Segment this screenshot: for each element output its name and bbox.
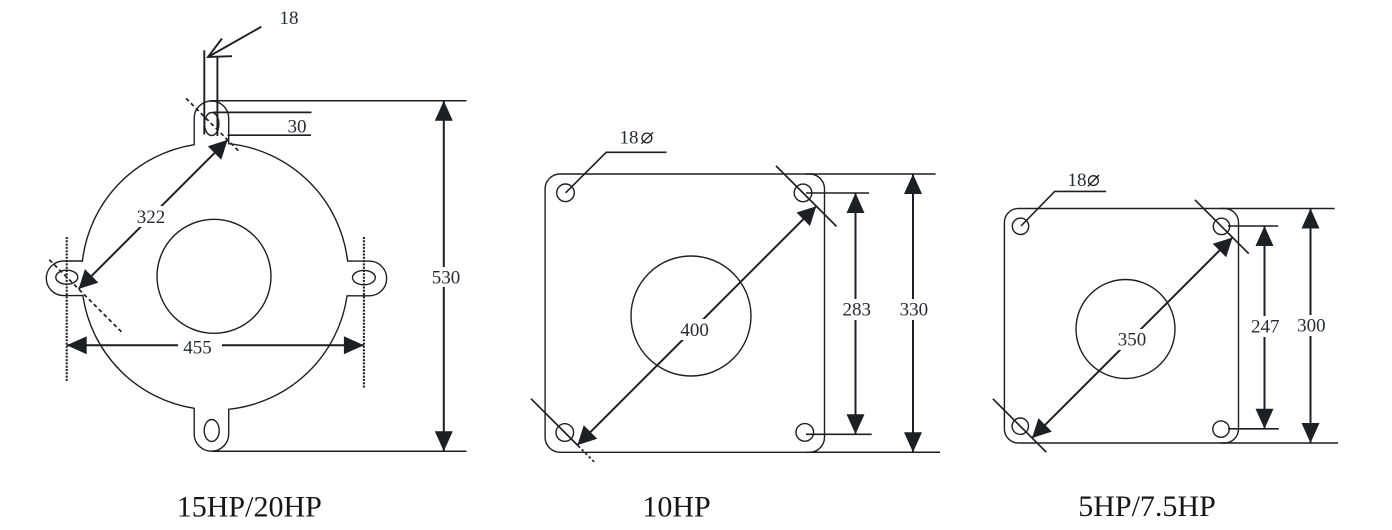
extension line plate-top for dim 330 — [806, 173, 936, 175]
dimension line 283 — [855, 193, 857, 434]
extension line tab-bottom for dim 530 — [211, 450, 467, 452]
extension line TR hole for dim 247 — [1228, 225, 1278, 227]
dimension line 300 — [1310, 209, 1312, 444]
right tab slot hole — [353, 270, 376, 284]
hole BL — [556, 424, 574, 442]
extension line hole-bottom for dim 30 — [228, 134, 312, 136]
svg-text:18: 18 — [1068, 170, 1087, 191]
dimension line 530 — [443, 101, 445, 451]
text 247 — [1249, 316, 1281, 337]
svg-text:18: 18 — [620, 128, 639, 149]
leader shaft for dim 18 — [208, 27, 261, 57]
hole BR — [1213, 421, 1229, 437]
extension line x217 for dim 18 — [216, 56, 218, 136]
svg-text:330: 330 — [900, 300, 929, 321]
arrowhead 330 down — [904, 432, 922, 452]
arrowhead 350 upper — [1213, 237, 1233, 257]
extension line tab-top for dim 530 — [210, 100, 467, 102]
leader open arrowhead for dim 18 — [208, 39, 232, 58]
arrowhead 283 down — [847, 414, 865, 434]
arrowhead 300 down — [1302, 423, 1320, 443]
arrowhead 330 up — [904, 174, 922, 194]
flange outline with four tabs — [46, 101, 386, 451]
dimension line 400 diagonal — [577, 206, 816, 445]
hole BL — [1012, 418, 1028, 434]
svg-text:350: 350 — [1118, 329, 1147, 350]
slash through BL hole — [531, 399, 578, 446]
text 322 — [134, 206, 168, 227]
svg-text:455: 455 — [183, 338, 212, 359]
arrowhead 247 up — [1256, 226, 1274, 246]
arrowhead 322 lower — [79, 269, 99, 289]
extension line hole-top for dim 30 — [213, 111, 312, 113]
text 400 — [678, 319, 712, 340]
slash through TR hole — [1195, 200, 1249, 254]
plate outline — [1004, 209, 1238, 444]
extension line plate-bottom for dim 300 — [1221, 442, 1338, 444]
dotted extension line left for dim 455 — [66, 237, 68, 382]
text 455 — [178, 336, 222, 356]
dimension line 330 — [912, 174, 914, 452]
svg-text:10HP: 10HP — [642, 491, 710, 524]
arrowhead 455 left — [67, 336, 87, 354]
text 350 — [1115, 329, 1149, 350]
leader for 18 dia — [1021, 191, 1106, 226]
svg-text:300: 300 — [1297, 316, 1326, 337]
svg-text:15HP/20HP: 15HP/20HP — [177, 491, 322, 524]
leader for 18 dia — [566, 152, 667, 193]
bottom tab slot hole — [204, 420, 219, 442]
left tab slot hole — [56, 270, 78, 284]
hole TL — [1012, 218, 1028, 234]
hole BR — [796, 424, 814, 442]
hole TL — [557, 184, 575, 202]
svg-text:30: 30 — [288, 116, 307, 137]
arrowhead 322 upper — [208, 140, 228, 160]
top tab slot hole — [205, 113, 219, 136]
arrowhead 283 up — [847, 193, 865, 213]
slash through left hole for dim 322 — [49, 260, 121, 332]
extension line BR hole for dim 247 — [1228, 428, 1279, 430]
centre circle — [631, 256, 751, 376]
extension line TR hole for dim 283 — [806, 192, 869, 194]
arrowhead 455 right — [344, 336, 364, 354]
extension line plate-bottom for dim 330 — [806, 451, 940, 453]
extension line plate-top for dim 300 — [1221, 208, 1335, 210]
text 300 — [1296, 315, 1328, 336]
inner bore circle — [157, 219, 271, 333]
slash through top hole for dim 322 — [186, 98, 239, 151]
dimension line 455 — [67, 344, 364, 346]
svg-text:5HP/7.5HP: 5HP/7.5HP — [1078, 490, 1216, 523]
plate outline — [545, 174, 824, 452]
extension line x204 for dim 18 — [203, 50, 205, 134]
text 330 — [897, 299, 931, 320]
arrowhead 530 down — [435, 431, 453, 451]
arrowhead 300 up — [1302, 209, 1320, 229]
slash through TR hole — [776, 166, 837, 227]
slash through BL hole — [993, 399, 1046, 452]
centre circle — [1076, 280, 1175, 379]
svg-text:322: 322 — [137, 207, 166, 228]
arrowhead 530 up — [435, 101, 453, 121]
dashed slash tail BL — [578, 446, 595, 463]
hole TR — [1213, 218, 1229, 234]
dimension line 247 — [1264, 226, 1266, 429]
svg-text:247: 247 — [1251, 317, 1280, 338]
text 530 — [430, 267, 462, 287]
text 283 — [840, 299, 874, 320]
svg-text:283: 283 — [843, 300, 872, 321]
extension line BR hole for dim 283 — [806, 433, 872, 435]
svg-text:530: 530 — [432, 267, 461, 288]
hole TR — [794, 184, 812, 202]
arrowhead 247 down — [1256, 409, 1274, 429]
dimension line 322 — [79, 140, 228, 289]
arrowhead 350 lower — [1032, 418, 1052, 438]
svg-text:400: 400 — [680, 320, 709, 341]
dotted extension line right for dim 455 — [363, 237, 365, 388]
svg-text:18: 18 — [280, 8, 299, 29]
arrowhead 400 upper — [797, 206, 817, 226]
dimension line 350 diagonal — [1032, 237, 1233, 438]
arrowhead 400 lower — [577, 425, 597, 445]
